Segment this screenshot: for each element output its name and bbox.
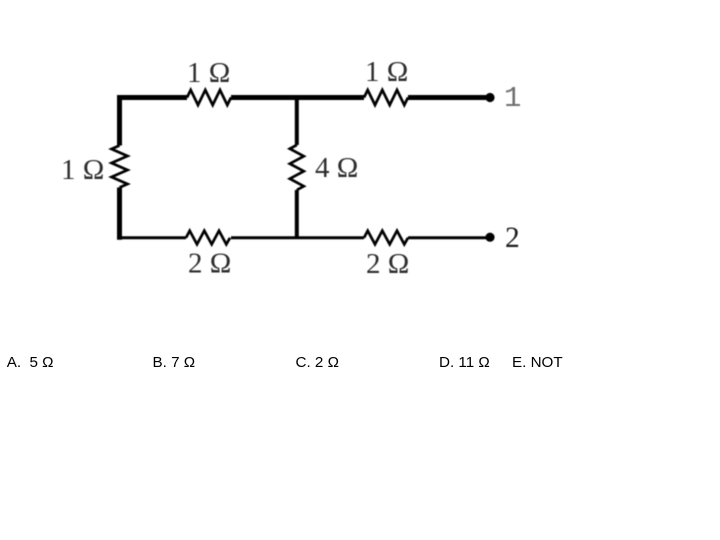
svg-text:2 Ω: 2 Ω xyxy=(366,248,409,280)
svg-text:1: 1 xyxy=(504,82,521,115)
svg-text:1 Ω: 1 Ω xyxy=(187,57,230,89)
svg-text:1 Ω: 1 Ω xyxy=(365,56,408,88)
svg-text:2 Ω: 2 Ω xyxy=(188,248,231,280)
svg-text:4 Ω: 4 Ω xyxy=(315,152,358,184)
svg-text:2: 2 xyxy=(505,222,520,254)
svg-text:1 Ω: 1 Ω xyxy=(61,154,104,186)
